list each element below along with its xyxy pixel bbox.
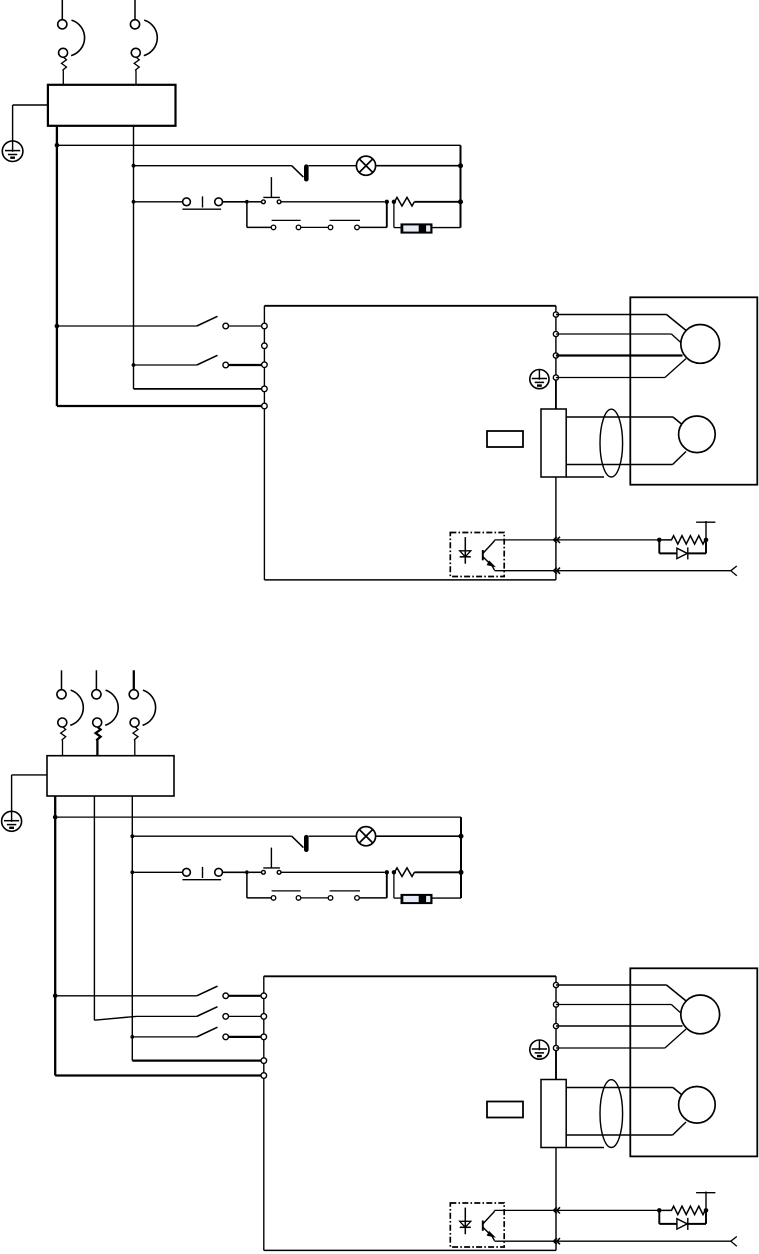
branch wire down' [246, 872, 248, 898]
junction node E' [704, 1208, 709, 1213]
switch S6a [55, 995, 197, 997]
inverter input terminal 1' [261, 993, 267, 999]
breaker pole CB2-a arc [70, 690, 83, 725]
inverter earth PE2 [530, 370, 549, 389]
inverter input terminal 5' [261, 1073, 267, 1079]
limit contact S2a [271, 225, 276, 230]
motor M1 [681, 325, 720, 364]
resistor R3 [662, 536, 708, 544]
junction L3-control' [130, 870, 134, 874]
switch S3b [134, 364, 197, 366]
shield loop [600, 409, 623, 477]
pushbutton PB2 [262, 200, 266, 204]
pilot lamp PL1 [356, 156, 375, 175]
wire V [556, 333, 672, 335]
cable edge [566, 476, 604, 478]
terminal block TB [541, 409, 566, 477]
wire N [133, 126, 135, 389]
resistor R5 [395, 868, 415, 877]
lamp branch wire' [132, 835, 291, 837]
breaker pole CB2-a upper contact [57, 690, 66, 699]
connector chevrons emitter [554, 568, 557, 574]
breaker pole CB2-c arc [143, 690, 156, 725]
flyback diode D3 [658, 540, 660, 554]
earth wire' [12, 774, 47, 776]
fan wire 2 [566, 464, 672, 466]
inverter output terminal 3' [553, 1023, 558, 1028]
inverter input terminal 2 [262, 343, 268, 349]
motor M3 [681, 995, 720, 1034]
breaker pole CB1-a arc [71, 20, 84, 56]
cable edge' [566, 1147, 604, 1149]
limit contact S5a [271, 896, 276, 901]
breaker pole CB2-b upper contact [92, 690, 101, 699]
junction bus-lamp' [459, 834, 464, 839]
inverter earth PE4 [530, 1040, 549, 1059]
breaker pole CB2-c lead [133, 670, 135, 689]
junction L3-lamp' [130, 834, 134, 838]
fan wire 2' [566, 1134, 672, 1136]
control feed wire' [55, 816, 461, 818]
collector wire' [495, 1209, 660, 1211]
wire L3' [131, 796, 133, 1061]
lamp branch wire [134, 165, 292, 167]
wire motor earth' [556, 1047, 665, 1049]
wire W' [556, 1025, 683, 1027]
switch S3a [57, 325, 197, 327]
breaker pole CB1-b lower contact [131, 48, 140, 57]
relay contact MC wire [134, 201, 183, 203]
emitter wire' [495, 1240, 731, 1242]
inverter output terminal 1 [553, 312, 558, 317]
noise filter NF2 [47, 756, 174, 796]
junction bus-control [458, 199, 463, 204]
breaker pole CB2-b lower contact [93, 718, 102, 727]
breaker pole CB2-c lower contact [130, 718, 139, 727]
wire pushbutton to node B [281, 201, 385, 203]
breaker pole CB1-a upper contact [58, 20, 67, 29]
junction L1-control [55, 143, 60, 148]
terminal block TB' [541, 1080, 566, 1148]
optocoupler transistor [482, 550, 484, 560]
wire L2' [93, 796, 95, 1020]
inverter input terminal 4' [261, 1058, 267, 1064]
breaker pole CB2-a lead [61, 670, 63, 689]
inverter U1 enclosure [264, 305, 556, 307]
wire V' [556, 1004, 671, 1006]
emitter wire [495, 570, 731, 572]
junction node B [385, 200, 389, 204]
limit contact S5b [328, 896, 333, 901]
wire W [556, 354, 683, 356]
collector wire [495, 539, 660, 541]
inverter input terminal 1 [262, 323, 268, 329]
wire to terminal block [555, 380, 557, 409]
supply rail' [696, 1192, 715, 1194]
limit contact S2b [328, 225, 333, 230]
connector chevrons collector' [554, 1207, 557, 1213]
optocoupler transistor' [482, 1221, 484, 1231]
relay contact MC' [183, 868, 191, 876]
protective earth PE3 [2, 811, 22, 831]
junction L1-switch [55, 324, 60, 329]
junction node A [245, 200, 249, 204]
wire lamp to bus' [376, 835, 461, 837]
diode D5 [401, 894, 432, 903]
wire resistor to bus [414, 201, 460, 203]
relay contact MC' wire [132, 871, 183, 873]
emitter wire fork' [731, 1237, 737, 1247]
wire resistor to bus' [414, 871, 461, 873]
junction L1-switch' [53, 994, 58, 999]
protective earth PE1 [2, 141, 23, 162]
optocoupler U4 outline [450, 1203, 504, 1247]
breaker pole CB2-b lead [95, 670, 97, 689]
inverter output terminal 1' [553, 982, 558, 987]
fan motor M2 [679, 416, 716, 453]
breaker pole CB1-b lead [134, 0, 136, 20]
fan wire 1 [566, 416, 673, 418]
bus wire right [460, 145, 462, 227]
inverter U3 enclosure [264, 975, 556, 977]
breaker pole CB2-c upper contact [129, 690, 138, 699]
pushbutton PB5 [262, 870, 266, 874]
wire node to pushbutton [249, 201, 262, 203]
junction N-switch [132, 363, 136, 367]
branch wire down [246, 202, 248, 228]
control feed wire [57, 144, 461, 146]
diode branch wire [393, 202, 395, 228]
junction node C' [392, 870, 396, 874]
breaker pole CB1-b thermal element [134, 57, 139, 85]
wire L1 [56, 126, 58, 406]
shield loop' [600, 1080, 623, 1148]
wire node to pushbutton' [249, 871, 262, 873]
wire motor earth [556, 377, 665, 379]
diode branch wire' [393, 872, 395, 898]
breaker pole CB2-a lower contact [58, 718, 67, 727]
wire to lamp' [309, 835, 357, 837]
junction node A' [245, 870, 249, 874]
inverter output terminal 2' [553, 1002, 558, 1007]
breaker pole CB1-a lead [61, 0, 63, 20]
breaker pole CB2-a thermal element [61, 727, 66, 756]
pilot lamp PL2 [356, 827, 375, 846]
inverter input terminal 3 [262, 362, 268, 368]
optocoupler U2 outline [450, 533, 504, 577]
optocoupler LED [464, 537, 466, 564]
inverter output terminal 4 [553, 375, 558, 380]
motor enclosure' [630, 968, 757, 1156]
breaker pole CB1-a lower contact [59, 48, 68, 57]
breaker pole CB2-c thermal element [133, 727, 138, 756]
junction N-lamp [132, 164, 136, 168]
inverter input terminal 3' [261, 1034, 267, 1040]
breaker pole CB1-b arc [144, 20, 157, 56]
fan wire 1' [566, 1087, 673, 1089]
supply rail [696, 521, 715, 523]
junction bus-control' [459, 870, 464, 875]
inverter input terminal 5 [262, 403, 268, 409]
breaker pole CB2-b thermal element [96, 727, 101, 756]
breaker pole CB1-b upper contact [130, 20, 139, 29]
resistor R2 [395, 197, 415, 206]
inverter output terminal 3 [553, 353, 558, 358]
motor enclosure [630, 297, 757, 484]
thermal contact OL5 [292, 836, 304, 847]
inverter input terminal 2' [261, 1014, 267, 1020]
junction L1-control' [53, 815, 58, 820]
option slot' [487, 1102, 523, 1118]
junction L3-switch' [130, 1035, 134, 1039]
wire contact to node' [222, 871, 247, 873]
bus wire right' [460, 817, 462, 898]
thermal contact OL2 [292, 166, 304, 177]
junction node D' [657, 1208, 662, 1213]
connector chevrons emitter' [554, 1238, 557, 1244]
breaker pole CB2-b arc [105, 690, 118, 725]
noise filter NF1 [48, 85, 176, 126]
switch S6b [136, 1015, 197, 1017]
wire contact to node [222, 201, 247, 203]
wire U [556, 314, 667, 316]
wire to lamp [309, 165, 357, 167]
resistor R6 [662, 1206, 708, 1214]
junction bus-lamp [458, 163, 463, 168]
junction node E [704, 538, 709, 543]
inverter output terminal 4' [553, 1045, 558, 1050]
junction node B' [385, 870, 389, 874]
emitter wire fork [731, 566, 737, 576]
junction N-control [132, 200, 136, 204]
connector chevrons collector [554, 537, 557, 543]
flyback diode D6 [658, 1210, 660, 1224]
wire U' [556, 984, 667, 986]
branch wire up [359, 226, 387, 228]
switch S6c [132, 1036, 197, 1038]
wire to terminal block' [555, 1051, 557, 1080]
optocoupler LED' [464, 1208, 466, 1235]
junction node C [392, 200, 396, 204]
junction node D [657, 538, 662, 543]
wire lamp to bus [376, 165, 461, 167]
option slot [487, 431, 523, 447]
earth wire [13, 104, 48, 106]
wire pushbutton to node B' [281, 871, 385, 873]
wire L1' [54, 796, 56, 1076]
breaker pole CB1-a thermal element [62, 57, 67, 85]
inverter output terminal 2 [553, 331, 558, 336]
branch wire up' [359, 897, 387, 899]
fan motor M4 [679, 1087, 716, 1124]
diode D2 [401, 224, 432, 233]
relay contact MC [183, 198, 191, 206]
inverter input terminal 4 [262, 386, 268, 392]
